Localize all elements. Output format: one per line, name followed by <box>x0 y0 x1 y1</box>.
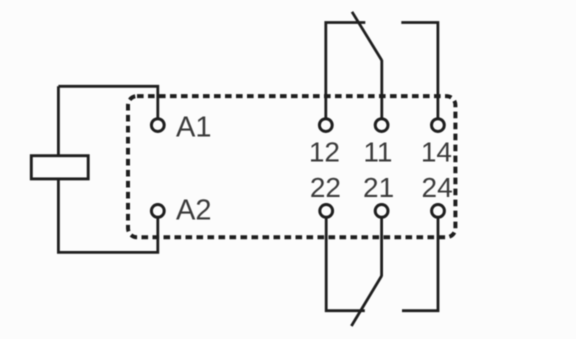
relay body dashed outline <box>128 96 455 237</box>
terminal A1 <box>151 119 164 132</box>
coil K1 <box>31 156 88 179</box>
svg-text:14: 14 <box>421 137 452 168</box>
wire terminal 21 drop <box>380 218 383 276</box>
svg-text:12: 12 <box>309 137 340 168</box>
wire terminal 12 riser <box>326 23 366 118</box>
terminal 11 <box>375 119 388 132</box>
terminal 21 <box>375 205 388 218</box>
terminal A2 <box>151 205 164 218</box>
svg-text:A2: A2 <box>176 195 211 227</box>
wire terminal 24 drop <box>402 218 438 310</box>
svg-text:21: 21 <box>363 172 394 203</box>
terminal 14 <box>432 119 445 132</box>
switch blade bottom contact <box>351 276 381 326</box>
wire terminal 22 drop <box>326 218 365 310</box>
terminal 24 <box>432 205 445 218</box>
svg-text:A1: A1 <box>176 112 211 144</box>
svg-text:24: 24 <box>422 172 453 203</box>
wire coil loop left <box>58 86 157 252</box>
wire terminal 11 riser <box>380 60 383 118</box>
svg-text:22: 22 <box>310 172 341 203</box>
switch blade top contact <box>352 12 382 61</box>
wire terminal 14 riser <box>401 23 438 118</box>
svg-text:11: 11 <box>363 137 392 168</box>
terminal 22 <box>320 205 333 218</box>
terminal 12 <box>319 119 332 132</box>
